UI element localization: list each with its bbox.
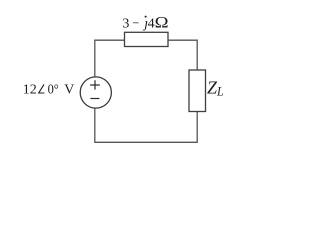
svg-text:12: 12	[23, 83, 37, 98]
svg-text:L: L	[216, 85, 224, 99]
value label "12&#8736;0&#176; V" of voltage source	[23, 83, 75, 98]
svg-text:−: −	[132, 16, 139, 31]
impedance (3 - j4 ohm) rectangular body	[125, 32, 169, 46]
svg-text:4: 4	[148, 16, 155, 31]
load impedance ZL rectangular body	[189, 70, 206, 112]
source minus polarity mark	[90, 98, 99, 100]
source plus polarity mark	[90, 80, 100, 89]
reference label "Z_L" of load impedance	[207, 78, 224, 99]
svg-text:Ω: Ω	[155, 14, 169, 31]
wire: resistor right lead across top and down to ZL top	[168, 40, 197, 70]
value label "3 - j4 ohm" of series impedance	[122, 14, 168, 31]
svg-text:0°: 0°	[48, 83, 59, 98]
svg-text:3: 3	[122, 16, 129, 31]
voltage source circle	[80, 77, 111, 108]
wire: ZL bottom down, along bottom, and up to source (-) terminal	[95, 108, 197, 142]
svg-text:V: V	[64, 83, 74, 98]
wire: source (+) terminal up and across to resistor left lead	[95, 40, 125, 77]
